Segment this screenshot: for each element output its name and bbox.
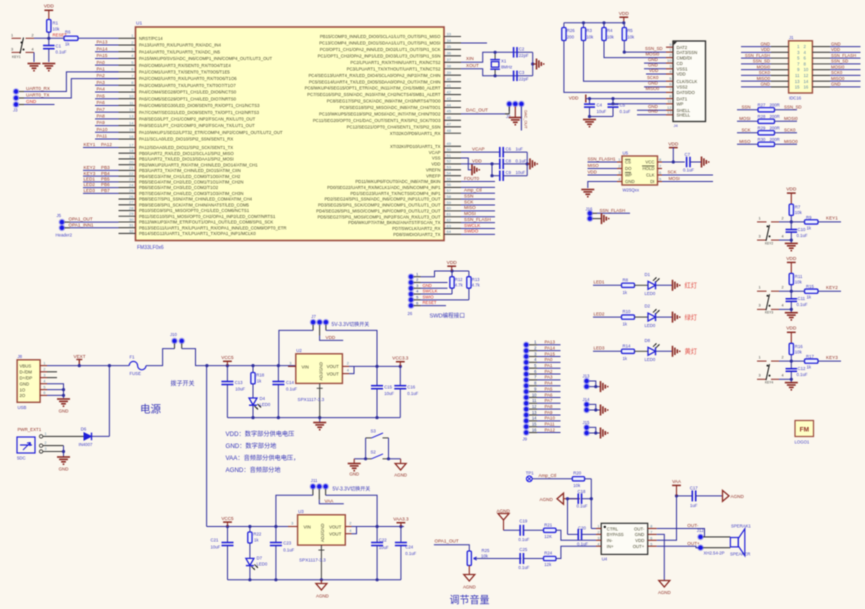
svg-text:GND: GND [635,532,645,537]
svg-text:15: 15 [129,127,134,132]
svg-text:LED2: LED2 [84,182,96,187]
wire [779,239,791,241]
svg-text:PA0/COM0/UART3_RX/SENT0_RX/T0O: PA0/COM0/UART3_RX/SENT0_RX/T0O4/T1E4 [139,63,231,68]
svg-text:OPA1_OUT: OPA1_OUT [69,216,93,221]
ground AGND (U3) [320,580,322,584]
resistor R3 [583,23,585,28]
resistor R27 [737,109,758,111]
wire [108,366,110,437]
svg-text:KEY1: KEY1 [826,216,838,221]
svg-text:MISO: MISO [588,163,600,168]
wire [564,22,624,24]
resistor R7 [789,204,793,215]
svg-text:SSN_FLASH: SSN_FLASH [600,208,626,213]
svg-text:PC1/OPT1_CH2/OPA2_INP1/LED_DIO: PC1/OPT1_CH2/OPA2_INP1/LED_DIO3/LUT3_OUT… [318,53,441,58]
svg-text:FOUT0: FOUT0 [464,176,480,181]
svg-text:PA9/SEG1/LPT_CH2/COMP3_INP2/FS: PA9/SEG1/LPT_CH2/COMP3_INP2/FSCAN_TX/LUT… [139,123,255,128]
svg-text:33: 33 [447,31,452,36]
svg-text:DAT3/SSN: DAT3/SSN [677,50,698,55]
svg-text:C18: C18 [578,489,586,494]
svg-text:MISO0: MISO0 [831,76,845,81]
wire J1 row 3 [741,57,771,59]
resistor R13 [468,271,470,277]
wire [585,478,592,480]
svg-text:PD11/WKUP6/FOUT0/ADC_IN8/ATIM_: PD11/WKUP6/FOUT0/ADC_IN8/ATIM_BKIN [355,179,440,184]
svg-text:R7: R7 [795,205,801,210]
svg-text:PD3/SEG25/SPI1_SCK/COMP2_INN/C: PD3/SEG25/SPI1_SCK/COMP2_INN/COMP1_OUT/L… [318,203,441,208]
resistor R21 [544,528,557,532]
svg-text:16: 16 [532,427,537,432]
svg-text:J7: J7 [311,314,316,319]
svg-text:VDD: VDD [786,326,797,332]
svg-text:3: 3 [597,537,599,541]
wire [662,161,685,163]
svg-text:U3: U3 [298,509,304,514]
svg-text:PC3/LPUART1_TX/XTHOUT/UART1_TX: PC3/LPUART1_TX/XTHOUT/UART1_TX/NCTS2 [347,66,442,71]
wire [249,543,251,558]
svg-text:PA13: PA13 [97,40,108,45]
LED D7 [246,558,254,565]
svg-text:SCK0: SCK0 [784,127,796,132]
svg-text:PA9: PA9 [97,120,106,125]
wire [635,284,649,286]
wire [637,109,666,111]
svg-text:12K: 12K [544,534,552,539]
svg-text:34: 34 [447,38,452,43]
svg-text:5V-3.3V切换开关: 5V-3.3V切换开关 [332,321,370,328]
svg-text:IN4007: IN4007 [79,442,93,447]
svg-text:PC0/OPT1_CH1/OPA2_INN/LED_DIO2: PC0/OPT1_CH1/OPA2_INN/LED_DIO2/LUT1_OUT/… [320,47,441,52]
ground [785,313,798,320]
U1 left pins bank2 [119,147,136,149]
ground [673,346,680,357]
svg-text:14: 14 [532,416,537,421]
svg-text:0.1uF: 0.1uF [407,391,418,396]
svg-text:SSN_SD: SSN_SD [753,59,770,64]
wire [790,285,792,292]
svg-text:VDD: VDD [786,256,797,262]
svg-text:WP: WP [677,102,684,107]
svg-text:63: 63 [447,223,452,228]
wire [325,325,327,331]
ground [527,163,530,165]
svg-text:Amp_Ctl: Amp_Ctl [464,188,482,193]
svg-text:PA10/WKUP1/SEG2/LPT32_ETR/COMP: PA10/WKUP1/SEG2/LPT32_ETR/COMP4_INP2/COM… [139,130,283,135]
wire [526,152,528,176]
wire [644,86,666,88]
wire [19,104,24,106]
svg-text:1: 1 [759,356,761,360]
resistor R30 [737,143,758,145]
svg-text:PA3: PA3 [97,80,106,85]
svg-text:18: 18 [129,148,134,153]
capacitor C5 [612,99,614,104]
wire [613,103,666,105]
svg-text:PA5: PA5 [545,386,554,391]
svg-text:PA9: PA9 [545,410,554,415]
svg-text:MOSI0: MOSI0 [784,116,798,121]
wire [818,221,841,223]
svg-text:SPEAKER: SPEAKER [730,552,750,557]
resistor R22 [249,527,251,533]
svg-text:0.1uF: 0.1uF [283,547,294,552]
resistor R28 [737,120,758,122]
wire [491,164,493,176]
svg-text:拨子开关: 拨子开关 [171,380,195,388]
svg-text:GND: GND [26,99,37,104]
wire J1 row 8 [741,86,771,88]
svg-text:55: 55 [447,176,452,181]
svg-text:12: 12 [804,73,809,78]
svg-text:43: 43 [447,96,452,101]
svg-text:VDD: VDD [619,11,630,17]
wire [564,498,580,500]
svg-text:0.1uF: 0.1uF [516,158,527,163]
svg-text:1O: 1O [20,387,26,392]
svg-text:C5: C5 [620,102,626,107]
svg-text:5: 5 [43,385,45,389]
svg-text:PA3: PA3 [545,375,554,380]
svg-text:7: 7 [650,531,652,535]
svg-text:PC10/WKUP5/SEG19/SPI2_MOSI/ADC: PC10/WKUP5/SEG19/SPI2_MOSI/ADC_IN7/ATIM_… [319,112,441,117]
node KEY1/PA12 [83,147,119,149]
wire [657,496,677,540]
svg-text:200R: 200R [770,103,780,108]
svg-text:R22: R22 [253,532,261,537]
wire [421,287,448,289]
svg-text:R25: R25 [482,548,490,553]
svg-text:32: 32 [129,228,134,233]
svg-text:R13: R13 [472,277,480,282]
svg-text:31: 31 [129,223,134,228]
svg-text:F1: F1 [130,355,136,360]
svg-text:26: 26 [129,194,134,199]
svg-text:XTI32KI/PD10/UART1_TX: XTI32KI/PD10/UART1_TX [390,144,441,149]
svg-text:VCAP: VCAP [429,150,441,155]
svg-text:PA6/COM6/SEG30/LED_DIO8/SENT0_: PA6/COM6/SEG30/LED_DIO8/SENT0_RX/OPT1_CH… [139,103,260,108]
svg-text:PA14: PA14 [97,46,108,51]
svg-text:C9: C9 [506,170,512,175]
svg-text:KEY3: KEY3 [84,171,96,176]
svg-text:PD7/SWCLK/UART2_RX: PD7/SWCLK/UART2_RX [392,226,441,231]
wire [589,404,596,410]
svg-text:PA11/SCLA0/LED_DIO10/SPI2_SSN/: PA11/SCLA0/LED_DIO10/SPI2_SSN/SENT1_RX [139,137,233,142]
wire [318,489,320,500]
svg-text:10k: 10k [586,34,594,39]
wire [790,215,792,222]
wire [78,37,119,39]
svg-text:CD: CD [677,61,683,66]
svg-text:R17: R17 [806,354,814,359]
svg-text:10k: 10k [795,279,803,284]
svg-text:HOLD: HOLD [643,166,655,171]
wire audio ground rail [228,579,401,581]
svg-text:R10: R10 [623,309,631,314]
svg-text:4: 4 [782,234,784,238]
svg-text:PB9/SEG8/SPI1_SCK/ATIM_CH4N/AN: PB9/SEG8/SPI1_SCK/ATIM_CH4N/ANATST/LED_C… [139,202,250,207]
svg-text:4.7k: 4.7k [455,283,464,288]
svg-text:3: 3 [759,374,761,378]
svg-text:C12: C12 [798,366,806,371]
wire [779,221,805,223]
svg-text:15: 15 [532,422,537,427]
svg-text:10uF: 10uF [211,544,221,549]
op-amp U3 SPX1117 [298,515,346,545]
svg-text:PA8: PA8 [97,113,106,118]
svg-text:4: 4 [43,379,45,383]
svg-text:SWCLK: SWCLK [464,223,481,228]
svg-text:0.1uF: 0.1uF [797,372,808,377]
svg-text:24: 24 [129,182,134,187]
svg-text:200R: 200R [770,114,780,119]
wire [92,435,110,437]
svg-text:16: 16 [129,134,134,139]
ground [57,457,70,464]
svg-text:LED0: LED0 [257,561,268,566]
wire J1 row 7 [741,80,771,82]
svg-text:VDD: VDD [761,47,770,52]
svg-text:0.1uF: 0.1uF [577,504,588,509]
svg-text:SSN_SD: SSN_SD [831,59,848,64]
ground AGND (C17) [723,490,730,501]
wire [461,151,500,153]
svg-text:VDD: VDD [588,169,597,174]
ground [509,118,522,125]
svg-text:6: 6 [650,537,652,541]
svg-text:3: 3 [759,234,761,238]
svg-text:12k: 12k [544,562,552,567]
svg-text:UART0_RX: UART0_RX [26,86,50,91]
svg-text:8MHz: 8MHz [501,64,512,69]
svg-text:2O: 2O [20,393,26,398]
svg-text:4: 4 [782,304,784,308]
wire [646,73,666,75]
svg-text:W25Qxx: W25Qxx [623,188,640,193]
svg-text:13: 13 [129,114,134,119]
svg-text:PB3: PB3 [101,165,110,170]
svg-text:0.1uF: 0.1uF [683,168,694,173]
svg-text:PB7: PB7 [101,188,110,193]
svg-text:X1: X1 [501,58,507,63]
svg-text:2: 2 [782,216,784,220]
svg-text:VDD: VDD [649,68,658,73]
svg-text:MISO0: MISO0 [784,139,798,144]
svg-text:KEY1: KEY1 [84,142,96,147]
svg-text:SWCLK: SWCLK [423,289,438,294]
svg-text:PC2/LPUART1_RX/XTHIN/UART1_RX/: PC2/LPUART1_RX/XTHIN/UART1_RX/NCTS2 [350,60,441,65]
resistor R8 [622,283,635,287]
svg-text:0.1uF: 0.1uF [797,233,808,238]
svg-text:PA4: PA4 [545,381,554,386]
svg-text:PB14/SEG12/UART1_TX/LPUART1_TX: PB14/SEG12/UART1_TX/LPUART1_TX/OPA1_INP1… [139,231,256,236]
svg-text:5V-3.3V切换开关: 5V-3.3V切换开关 [333,485,371,492]
svg-text:0.1uF: 0.1uF [56,50,67,55]
svg-text:VDD: VDD [44,4,55,10]
capacitor C12 [790,361,792,368]
svg-text:CMD/DI: CMD/DI [677,55,692,60]
LED D2 [648,313,656,321]
capacitor C9 [499,170,501,181]
svg-text:13: 13 [532,410,537,415]
svg-text:MOSI: MOSI [669,176,680,181]
svg-text:D7: D7 [257,555,263,560]
LED D8 [648,347,656,355]
svg-text:45: 45 [447,109,452,114]
svg-text:R6: R6 [65,30,71,35]
svg-text:PA14/UART0_TX/LPUART0_TX/ADC_I: PA14/UART0_TX/LPUART0_TX/ADC_IN5 [139,49,221,54]
svg-text:10uF: 10uF [384,391,394,396]
svg-text:3: 3 [43,373,45,377]
svg-text:VDD: VDD [431,162,440,167]
svg-text:PC9/SEG18/SPI2_MISO/ADC_IN8/AT: PC9/SEG18/SPI2_MISO/ADC_IN8/ATIM_CH4/T0O… [340,105,441,110]
svg-text:AGND: AGND [540,497,554,502]
wire [582,533,596,535]
wire [532,52,534,76]
svg-text:PA2/COM2/UART0_RX/LPUART0_RX/T: PA2/COM2/UART0_RX/LPUART0_RX/T0O6/T1O6 [139,76,237,81]
svg-text:GND: GND [831,82,841,87]
svg-text:PA10: PA10 [545,416,556,421]
svg-text:SSN_SD: SSN_SD [645,46,663,51]
svg-text:PA2: PA2 [545,369,554,374]
svg-text:R11: R11 [795,274,803,279]
svg-text:22pF: 22pF [519,53,529,58]
wire [146,349,175,366]
svg-text:LED0: LED0 [260,402,271,407]
wire [434,545,469,551]
wire [43,451,64,453]
wire [589,427,596,433]
svg-text:VOUT: VOUT [329,532,342,537]
svg-text:10k: 10k [607,34,615,39]
svg-text:PB0/UART2_RX/LED_DIO12/SCLA1/S: PB0/UART2_RX/LED_DIO12/SCLA1/SPI2_MISO [139,151,234,156]
svg-text:TP1: TP1 [526,471,534,476]
svg-text:VREFP: VREFP [426,173,440,178]
svg-text:PA8: PA8 [545,404,554,409]
svg-text:0.1uF: 0.1uF [286,387,297,392]
svg-text:SWIO: SWIO [423,294,435,299]
svg-text:10k: 10k [795,349,803,354]
svg-text:AGND: AGND [497,508,511,513]
wire [582,498,592,500]
svg-text:PA15/WKUP0/SVS/ADC_IN6/COMP1_I: PA15/WKUP0/SVS/ADC_IN6/COMP1_INN/COMP4_O… [139,56,273,61]
wire [312,489,314,495]
wire GND [47,384,64,398]
svg-text:11: 11 [795,73,800,78]
svg-text:10: 10 [804,67,809,72]
svg-text:PA0: PA0 [545,357,554,362]
wire [461,186,495,188]
ground [533,63,537,65]
capacitor C14 [277,366,279,382]
svg-text:GND：数字部分地: GND：数字部分地 [226,442,277,450]
resistor R29 [737,132,758,134]
svg-text:R29: R29 [758,126,766,131]
svg-text:C6: C6 [506,147,512,152]
svg-text:1uF: 1uF [690,503,698,508]
svg-text:C14: C14 [286,380,294,385]
wire VCC5 rail [207,365,296,367]
svg-text:C25: C25 [519,547,527,552]
wire [818,290,841,292]
svg-text:1: 1 [45,432,47,436]
svg-text:PA15: PA15 [545,351,556,356]
svg-text:VOUT: VOUT [327,364,340,369]
ground [601,428,608,439]
svg-text:PB7/SEG6/ATIM_CH4/LED_COM3/T1O: PB7/SEG6/ATIM_CH4/LED_COM3/T1O3/ATIM_CH3… [139,191,243,196]
svg-text:VCC5: VCC5 [221,516,234,521]
wire [47,389,64,391]
test point TP1 [526,476,532,482]
wire [461,69,533,76]
svg-text:PD4/SEG26/SPI1_MISO/COMP1_INP/: PD4/SEG26/SPI1_MISO/COMP1_INP/COMP3_OUT/… [316,208,441,213]
svg-text:53: 53 [447,165,452,170]
ground AGND (U4) [659,581,670,588]
resistor R6 [64,36,78,40]
svg-text:VBUS: VBUS [20,363,32,368]
capacitor C21 [227,527,229,543]
wire J1 row 2 [741,51,771,53]
wire [520,107,522,131]
svg-text:J15: J15 [583,420,591,425]
wire [779,308,791,310]
op-amp U5 W25Qxx [622,156,658,185]
svg-text:50: 50 [447,147,452,152]
svg-text:PA1: PA1 [545,363,554,368]
svg-text:VCC5: VCC5 [221,355,234,360]
wire [532,478,572,480]
speaker SPERAK1 [703,536,730,538]
wire [503,163,527,165]
svg-text:J9: J9 [523,437,528,442]
svg-text:Amp_Ctl: Amp_Ctl [539,473,557,478]
svg-text:38: 38 [447,64,452,69]
svg-text:4.7k: 4.7k [472,283,481,288]
svg-text:PB1/UART2_TX/LED_DIO13/SDAA1/S: PB1/UART2_TX/LED_DIO13/SDAA1/SPI2_MOSI [139,157,234,162]
svg-text:PA13: PA13 [545,340,556,345]
capacitor C3 [513,71,515,82]
wire [504,529,521,531]
svg-text:R4: R4 [607,28,613,33]
svg-text:21: 21 [129,165,134,170]
svg-text:1: 1 [597,525,599,529]
svg-text:AGND: AGND [316,594,329,599]
ground [673,312,680,323]
svg-text:2: 2 [782,286,784,290]
svg-text:1: 1 [11,34,13,38]
wire [325,489,327,495]
svg-text:AGND: AGND [394,473,407,478]
svg-text:PD2/SEG24/SPI1_SSN/ADC_IN6/COM: PD2/SEG24/SPI1_SSN/ADC_IN6/COMP2_INP1/LU… [324,197,440,202]
wire [657,546,704,548]
svg-text:SCK: SCK [464,199,474,204]
svg-text:GND: GND [59,409,69,414]
svg-text:C13: C13 [235,380,243,385]
svg-text:SSN_FLASH: SSN_FLASH [745,53,770,58]
wire [48,32,50,38]
svg-text:NRST/PC14: NRST/PC14 [139,36,163,41]
svg-text:MISO0: MISO0 [757,76,771,81]
connector J9 [523,342,530,349]
node LED1/PB5 [83,181,119,183]
svg-text:13: 13 [795,79,800,84]
svg-text:4: 4 [597,542,599,546]
wire [19,97,24,99]
svg-text:XTI32KO/PD9/UART1_RX: XTI32KO/PD9/UART1_RX [390,131,441,136]
svg-text:46: 46 [447,115,452,120]
svg-text:C17: C17 [690,486,698,491]
svg-text:VREFN: VREFN [426,167,441,172]
svg-text:PC8/SEG17/SPI2_SCK/ADC_IN9/ATI: PC8/SEG17/SPI2_SCK/ADC_IN9/ATIM_CH3/NRTS… [327,99,441,104]
